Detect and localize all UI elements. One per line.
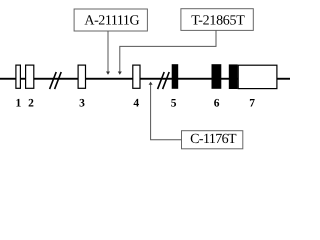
exon 1 (16, 65, 21, 88)
exon 7 UTR part (238, 65, 277, 88)
connector T-21865T to line (120, 30, 216, 73)
exon 6 (212, 64, 222, 89)
svg-text:A-21111G: A-21111G (84, 14, 139, 29)
exon 7 coding part (229, 64, 238, 89)
svg-text:5: 5 (171, 98, 177, 110)
label box C-1176T (182, 131, 243, 149)
gene line (0, 78, 290, 80)
svg-text:T-21865T: T-21865T (191, 14, 245, 29)
exon 5 (172, 64, 179, 89)
exon 4 (133, 65, 140, 88)
label box A-21111G (74, 9, 147, 31)
svg-text:6: 6 (214, 98, 220, 110)
svg-text:1: 1 (16, 98, 22, 110)
svg-text:C-1176T: C-1176T (190, 132, 237, 147)
svg-text:4: 4 (133, 98, 139, 110)
arrow A-21111G to line (107, 31, 109, 74)
label box T-21865T (181, 9, 253, 31)
break 2 (158, 72, 170, 89)
svg-text:7: 7 (249, 98, 255, 110)
svg-text:3: 3 (79, 98, 85, 110)
exon 3 (78, 65, 85, 88)
exon 2 (26, 65, 34, 88)
connector C-1176T to line (151, 85, 182, 140)
break 1 (50, 72, 62, 89)
svg-text:2: 2 (28, 98, 34, 110)
